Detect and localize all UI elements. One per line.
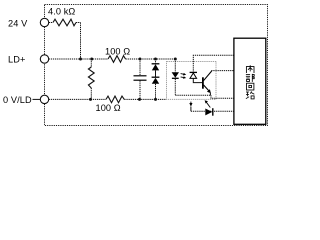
resistor R2 100 zigzag on LD+ rail	[108, 56, 126, 63]
photodiode (open triangle pointing up)	[190, 73, 197, 78]
light input arrow onto monitor wire	[190, 102, 192, 104]
junction dot vertical resistor bottom	[89, 98, 92, 101]
internal circuit label (kanji 内部回路 drawn)	[246, 65, 254, 99]
diode D1 cathode bar	[152, 63, 160, 65]
photocoupler PC1 package outline	[167, 62, 217, 100]
resistor R4 100 zigzag on 0V rail	[106, 96, 124, 103]
wire stub from 0V/LD label to terminal	[33, 98, 41, 100]
junction dot capacitor bottom	[138, 98, 141, 101]
wire 0V rail left section	[49, 98, 106, 100]
kanji 回	[247, 83, 254, 90]
internal circuit box	[234, 38, 266, 124]
wire between D1 and D2	[155, 70, 157, 77]
monitor photodiode D3 (pointing right)	[205, 109, 212, 116]
wire monitor photodiode stub	[190, 107, 192, 112]
wire collector to internal circuit box	[211, 70, 234, 72]
terminal 0V/LD	[40, 95, 48, 103]
junction dot diode pair top	[154, 58, 157, 61]
transistor Q1 emitter with arrow	[204, 85, 210, 92]
wire monitor photodiode to internal circuit box	[191, 110, 234, 112]
light emission arrow 1	[181, 73, 185, 76]
terminal 24V	[40, 18, 48, 26]
resistor R3 vertical zigzag	[88, 67, 94, 88]
photocoupler LED (pointing down)	[172, 72, 179, 77]
kanji 部	[246, 74, 254, 82]
wire LD+ rail right section	[126, 58, 176, 60]
junction dot diode pair bottom	[154, 98, 157, 101]
wire vertical resistor top lead	[90, 59, 92, 67]
transistor Q1 collector	[204, 71, 212, 81]
svg-text:100 Ω: 100 Ω	[105, 47, 130, 57]
wire LED cathode lead down	[174, 79, 176, 95]
junction dot capacitor top	[139, 58, 142, 61]
svg-text:100 Ω: 100 Ω	[96, 103, 121, 113]
wire photodiode anode lead	[193, 78, 202, 82]
resistor R1 4.0k zigzag	[53, 19, 76, 26]
kanji 内	[246, 65, 254, 73]
wire vertical resistor bottom lead	[90, 88, 92, 99]
received light arrow	[206, 102, 210, 107]
svg-text:0 V/LD: 0 V/LD	[3, 95, 32, 105]
junction dot LED anode at LD+ rail	[174, 58, 177, 61]
outer enclosure border (dotted frame)	[45, 5, 268, 126]
light emission arrow 2	[181, 76, 185, 79]
capacitor C1 top lead	[139, 59, 141, 76]
diode D2 cathode bar	[152, 76, 160, 78]
svg-text:24 V: 24 V	[8, 19, 28, 29]
wire step down to internal circuit box	[211, 95, 234, 98]
terminal LD+	[40, 55, 48, 63]
diode D1 (pointing up)	[152, 64, 159, 70]
junction dot at 4.0k / LD+ rail	[79, 58, 82, 61]
capacitor C1 bottom lead	[139, 80, 141, 99]
svg-text:4.0 kΩ: 4.0 kΩ	[48, 7, 75, 17]
capacitor C1 plates	[134, 75, 147, 77]
wire emitter down to cathode wire	[209, 93, 211, 96]
diode D2 (pointing up)	[152, 78, 159, 84]
wire 24V terminal to resistor R1	[49, 22, 53, 24]
wire LED cathode to emitter junction	[175, 94, 211, 96]
photocoupler LED cathode bar	[172, 77, 179, 79]
kanji 路	[246, 91, 254, 99]
wire diode pair bottom lead	[155, 84, 157, 100]
svg-text:LD+: LD+	[8, 55, 25, 65]
wire corner down to LD+ rail	[80, 23, 82, 60]
photodiode cathode bar	[190, 71, 197, 73]
wire diode pair top lead	[155, 59, 157, 64]
wire R1 to corner	[76, 22, 81, 24]
wire 0V rail right section	[124, 98, 166, 100]
wire photodiode cathode to internal circuit box	[193, 55, 234, 72]
transistor Q1 base bar	[202, 77, 204, 88]
junction dot vertical resistor top	[90, 58, 93, 61]
wire LED anode lead	[174, 59, 176, 72]
wire LD+ rail	[49, 58, 108, 60]
monitor photodiode D3 cathode bar	[212, 108, 214, 116]
